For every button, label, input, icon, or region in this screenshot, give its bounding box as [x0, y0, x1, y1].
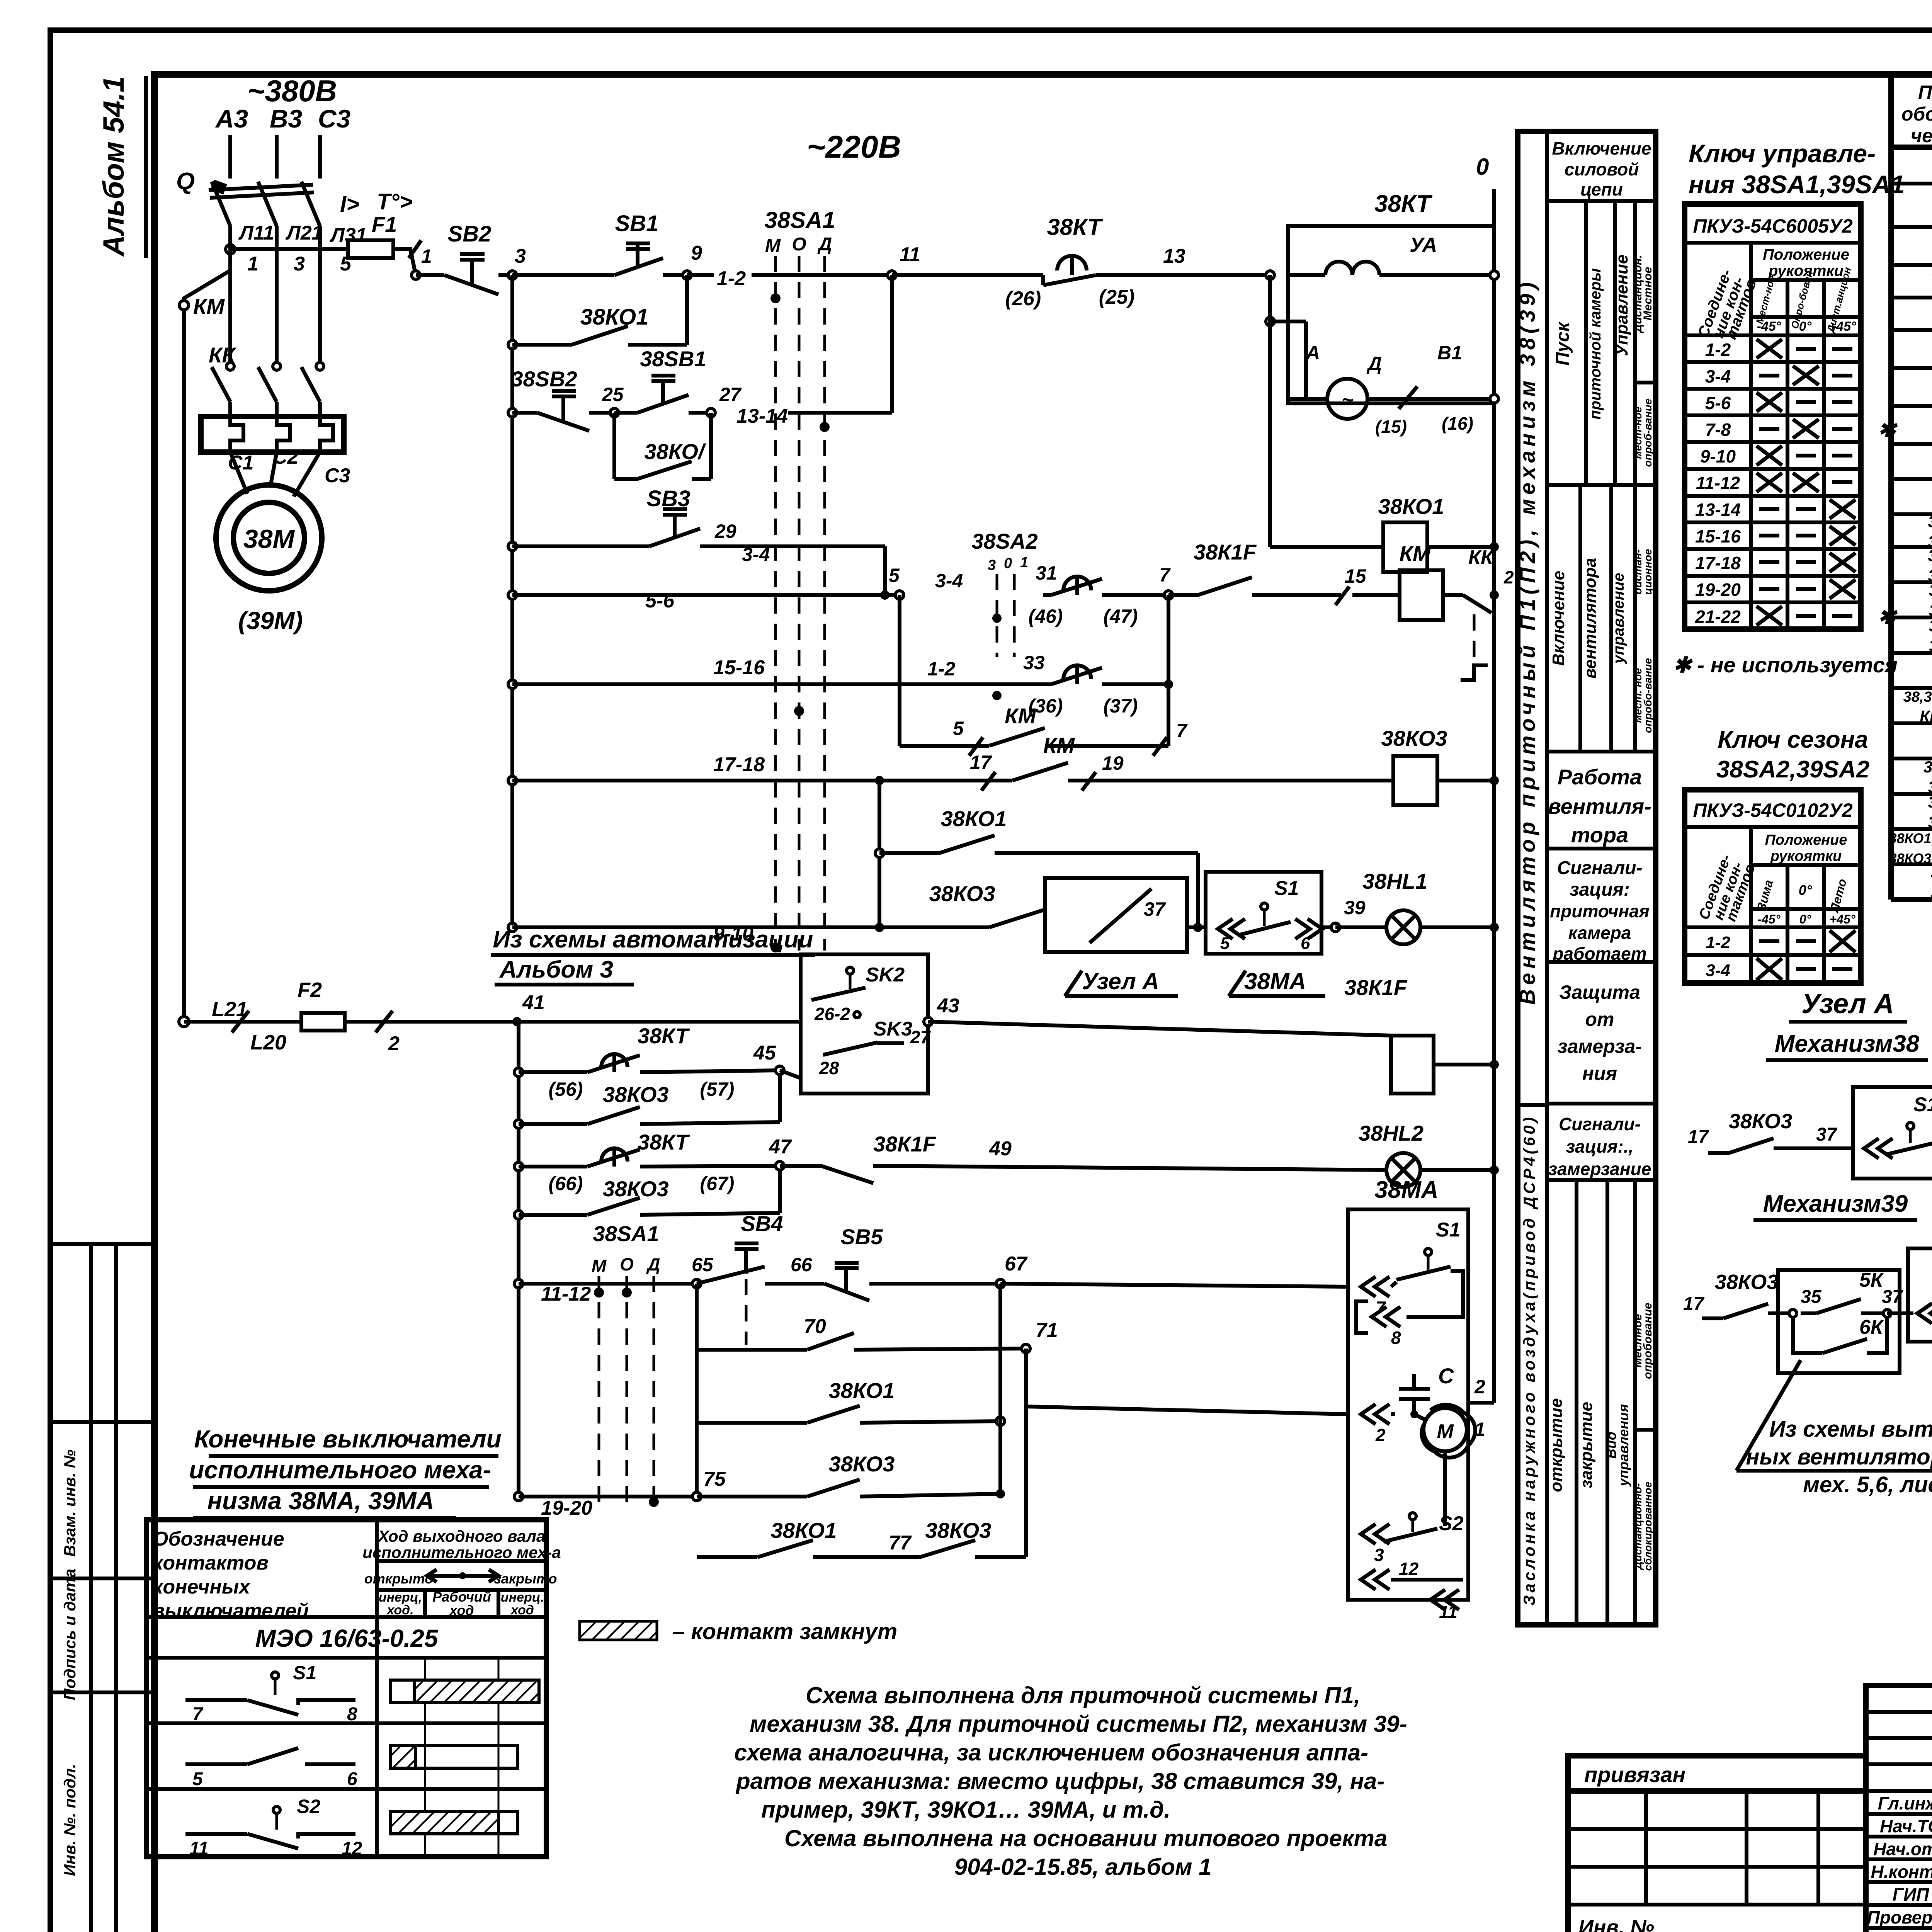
svg-text:Поз.: Поз. [1918, 82, 1932, 103]
svg-text:43: 43 [937, 995, 959, 1017]
svg-text:Положение: Положение [1763, 246, 1849, 263]
svg-text:силовой: силовой [1565, 159, 1639, 179]
MEO limit switch table [146, 1520, 546, 1857]
svg-text:Альбом 54.1: Альбом 54.1 [97, 76, 130, 257]
svg-text:Из схемы автоматизации: Из схемы автоматизации [493, 926, 813, 953]
svg-text:управления: управления [1616, 1404, 1631, 1487]
svg-text:F1: F1 [372, 212, 397, 236]
band section power-on [1547, 199, 1656, 203]
svg-text:ГИП: ГИП [1893, 1884, 1929, 1905]
svg-text:I>: I> [340, 192, 359, 217]
svg-text:1: 1 [1020, 554, 1028, 571]
coil YA arcs [1288, 273, 1325, 277]
svg-text:28: 28 [819, 1058, 839, 1078]
svg-text:S2: S2 [297, 1796, 320, 1817]
svg-text:25: 25 [602, 384, 624, 405]
svg-text:+45°: +45° [1829, 912, 1855, 926]
svg-text:38SB2: 38SB2 [511, 367, 577, 391]
svg-text:КМ: КМ [193, 294, 225, 318]
svg-text:38 SA1: 38 SA1 [1923, 758, 1932, 776]
svg-text:3-4: 3-4 [935, 570, 963, 592]
stub from node 832 into box [1270, 320, 1306, 323]
svg-text:6К: 6К [1859, 1316, 1884, 1338]
svg-text:5-6: 5-6 [645, 590, 675, 612]
svg-text:17: 17 [970, 752, 992, 773]
svg-text:Пуск: Пуск [1553, 321, 1573, 366]
L21 feeder rung [179, 1017, 189, 1027]
svg-text:6: 6 [347, 1769, 357, 1789]
rung 15-16 / 1-2 / 33 [508, 680, 517, 689]
svg-text:ратов механизма: вместо цифры,: ратов механизма: вместо цифры, 38 ставит… [735, 1768, 1384, 1794]
svg-text:0°: 0° [1799, 319, 1812, 334]
svg-text:41: 41 [522, 992, 545, 1014]
svg-text:привязан: привязан [1584, 1762, 1685, 1787]
svg-text:38КО3: 38КО3 [1729, 1110, 1793, 1133]
svg-text:Ключ сезона: Ключ сезона [1718, 726, 1868, 753]
svg-text:38HL2: 38HL2 [1929, 617, 1932, 635]
svg-text:1-2: 1-2 [1706, 933, 1730, 952]
pin 8 arrow [1386, 1307, 1400, 1327]
parallel contact 38KO1 under 38SB1 [612, 413, 616, 479]
svg-text:3: 3 [294, 253, 305, 275]
svg-text:5: 5 [889, 565, 900, 586]
svg-text:исполнительного мех-а: исполнительного мех-а [362, 1543, 561, 1561]
svg-text:38HL2: 38HL2 [1359, 1121, 1423, 1145]
band bottom columns [1547, 1178, 1656, 1182]
svg-text:ПКУЗ-54С6005У2: ПКУЗ-54С6005У2 [1693, 215, 1852, 237]
svg-text:67: 67 [1005, 1253, 1028, 1275]
svg-text:Инв. №. подл.: Инв. №. подл. [61, 1764, 79, 1876]
svg-text:17-18: 17-18 [713, 753, 765, 776]
svg-text:~: ~ [1342, 389, 1353, 411]
svg-text:L20: L20 [250, 1031, 286, 1054]
svg-text:Обозначение: Обозначение [153, 1528, 284, 1550]
svg-text:37: 37 [1144, 898, 1166, 920]
svg-text:(26): (26) [1005, 287, 1041, 310]
motor M in actuator [1423, 1408, 1467, 1451]
svg-text:открытие: открытие [1547, 1398, 1566, 1492]
node 71 [1022, 1344, 1030, 1353]
wire 43 to K1F coil [928, 1022, 1391, 1036]
node 1 to SB2 wire [412, 271, 420, 279]
svg-text:(16): (16) [1442, 413, 1473, 434]
node 9 [683, 271, 691, 279]
svg-text:Гл.инж.: Гл.инж. [1878, 1793, 1932, 1813]
svg-text:38SA2: 38SA2 [971, 529, 1037, 553]
rung 3-4: pushbutton SB3 [508, 542, 517, 551]
svg-text:9: 9 [691, 242, 702, 264]
svg-text:Л11: Л11 [238, 222, 274, 244]
svg-text:11-12: 11-12 [541, 1283, 591, 1305]
wire phase A down [228, 226, 232, 363]
svg-text:(57): (57) [700, 1078, 735, 1100]
svg-text:70: 70 [804, 1315, 826, 1338]
svg-text:Сигнали-: Сигнали- [1557, 858, 1642, 878]
svg-text:1-2: 1-2 [717, 267, 746, 290]
svg-text:7: 7 [1176, 720, 1188, 742]
svg-text:Подпись и дата: Подпись и дата [61, 1569, 79, 1700]
svg-text:приточной камеры: приточной камеры [1587, 268, 1604, 420]
rung 5-6 [508, 591, 517, 599]
svg-text:11: 11 [1439, 1602, 1458, 1622]
feeder vertical from node 41 [517, 1022, 520, 1497]
rung 19-20 / 75 38KO3 [514, 1492, 523, 1501]
node 13 column [1266, 271, 1274, 279]
svg-text:Инв. №: Инв. № [1578, 1916, 1654, 1932]
svg-text:механизм 38. Для приточной сис: механизм 38. Для приточной системы П2, м… [750, 1711, 1407, 1737]
pin 2 arrow + capacitor C [1361, 1404, 1376, 1424]
svg-text:ния: ния [1582, 1063, 1617, 1084]
wire fuse to node 1 [393, 249, 433, 275]
node 41 [512, 1017, 522, 1026]
svg-text:(66): (66) [549, 1173, 583, 1194]
hatch legend [580, 1621, 657, 1640]
svg-text:Проверил: Проверил [1867, 1907, 1932, 1927]
svg-text:38HL1: 38HL1 [1362, 869, 1427, 893]
svg-text:38КО3: 38КО3 [1715, 1270, 1779, 1294]
svg-text:38КТ: 38КТ [638, 1024, 690, 1048]
KM holding contact rung [898, 595, 901, 746]
band section start chamber [1584, 201, 1588, 485]
svg-text:тора: тора [1571, 823, 1629, 847]
holding contact 38KO1 [508, 340, 517, 349]
svg-text:39: 39 [1344, 897, 1366, 918]
svg-text:Д: Д [817, 234, 832, 255]
svg-text:(46): (46) [1029, 605, 1063, 627]
svg-text:Механизм39: Механизм39 [1763, 1190, 1908, 1217]
svg-text:Схема выполнена для приточной: Схема выполнена для приточной системы П1… [806, 1682, 1361, 1708]
svg-text:О: О [620, 1254, 634, 1274]
svg-text:опроб-вание: опроб-вание [1642, 399, 1654, 467]
pin 12 arrow [1361, 1570, 1376, 1590]
svg-text:КМ: КМ [1043, 733, 1075, 757]
SK2 SK3 box [801, 954, 928, 1094]
svg-text:низма 38МА, 39МА: низма 38МА, 39МА [207, 1487, 434, 1515]
svg-text:17: 17 [1683, 1294, 1705, 1314]
svg-text:11: 11 [900, 243, 920, 266]
svg-text:1: 1 [421, 245, 432, 267]
svg-text:схема аналогична, за исключени: схема аналогична, за исключением обознач… [734, 1740, 1368, 1765]
svg-text:УА: УА [1410, 233, 1437, 257]
node 3 [508, 271, 517, 279]
svg-text:3-4: 3-4 [742, 544, 770, 565]
svg-text:Д: Д [646, 1254, 660, 1274]
svg-text:38КО3: 38КО3 [829, 1452, 895, 1476]
node 45 [778, 1070, 782, 1122]
svg-text:Ключ управле-: Ключ управле- [1689, 139, 1876, 168]
svg-text:О: О [792, 234, 806, 255]
svg-text:38SB2: 38SB2 [1928, 546, 1932, 565]
svg-text:(15): (15) [1375, 417, 1407, 437]
svg-text:29: 29 [714, 520, 736, 542]
svg-text:(25): (25) [1099, 286, 1134, 308]
svg-text:цепи: цепи [1580, 179, 1623, 199]
svg-text:КК: КК [209, 343, 236, 367]
svg-text:С3: С3 [318, 104, 350, 133]
svg-text:Н.контр.: Н.контр. [1871, 1862, 1932, 1882]
svg-text:33: 33 [1023, 652, 1045, 673]
rung 13-14: pushbutton 38SB2 [508, 408, 517, 417]
svg-text:✱: ✱ [1878, 417, 1898, 441]
svg-text:(56): (56) [549, 1078, 583, 1100]
svg-text:5: 5 [1220, 934, 1230, 953]
svg-text:19: 19 [1102, 752, 1124, 774]
control key table PKU3-54C6005U2 [1685, 204, 1861, 629]
svg-text:47: 47 [769, 1136, 792, 1158]
svg-text:(47): (47) [1104, 605, 1138, 627]
svg-text:21-22: 21-22 [1695, 607, 1741, 627]
svg-text:вентилятора: вентилятора [1581, 558, 1600, 679]
svg-text:Нач.отд: Нач.отд [1873, 1839, 1932, 1859]
svg-text:пример, 39КТ, 39КО1… 39МА, и: пример, 39КТ, 39КО1… 39МА, и т.д. [761, 1797, 1170, 1823]
svg-text:0: 0 [1476, 154, 1489, 180]
svg-text:замерза-: замерза- [1558, 1036, 1642, 1057]
title block: signature table [1866, 1685, 1932, 1932]
svg-text:38К1F: 38К1F [1930, 863, 1932, 881]
svg-text:ных вентиляторов: ных вентиляторов [1746, 1444, 1932, 1469]
node 11 [888, 271, 896, 279]
svg-text:1-2: 1-2 [927, 658, 955, 680]
svg-text:выключателей: выключателей [153, 1600, 309, 1622]
svg-text:SB1: SB1 [615, 211, 659, 236]
svg-text:0: 0 [1004, 555, 1012, 571]
svg-text:закрыто: закрыто [494, 1571, 557, 1587]
svg-text:В1: В1 [1437, 342, 1462, 364]
parallel pair 38KT/(66)38KO3(67) [514, 1162, 523, 1171]
rung 17-18 KM contact [508, 776, 517, 785]
svg-text:71: 71 [1036, 1319, 1058, 1342]
rung 38KO1 signal [878, 781, 881, 927]
svg-text:Д: Д [1366, 353, 1382, 374]
svg-text:рукоятки: рукоятки [1770, 848, 1842, 864]
svg-text:Конечные выключатели: Конечные выключатели [194, 1425, 501, 1453]
svg-text:Q: Q [176, 168, 195, 195]
svg-text:19-20: 19-20 [541, 1497, 592, 1519]
svg-text:5: 5 [192, 1769, 203, 1789]
svg-text:S1: S1 [1436, 1219, 1461, 1241]
svg-text:15-16: 15-16 [713, 656, 765, 679]
svg-text:Защита: Защита [1559, 981, 1640, 1003]
band section fan works [1547, 750, 1656, 753]
svg-text:(37): (37) [1104, 695, 1138, 717]
svg-text:ход.: ход. [386, 1603, 413, 1617]
wire through key columns [752, 273, 892, 277]
svg-text:49: 49 [989, 1138, 1012, 1160]
svg-text:Включение: Включение [1552, 138, 1651, 158]
wire phase B down [275, 226, 279, 363]
svg-text:Т°>: Т°> [377, 189, 413, 214]
wires to motor [230, 452, 247, 494]
svg-text:38КО3: 38КО3 [925, 1518, 992, 1543]
svg-text:-45°: -45° [1757, 319, 1781, 334]
svg-text:38КТ: 38КТ [638, 1130, 690, 1154]
svg-text:2: 2 [1474, 1376, 1485, 1398]
svg-text:0°: 0° [1799, 912, 1811, 926]
svg-text:Работа: Работа [1558, 765, 1642, 789]
svg-text:3: 3 [515, 245, 526, 267]
parallel pair 38KT/(56)38KO3(57) [514, 1068, 523, 1077]
svg-text:5К: 5К [1859, 1269, 1884, 1291]
svg-text:37: 37 [1816, 1124, 1838, 1145]
svg-text:вентиля-: вентиля- [1548, 794, 1651, 818]
pin 11 arrow bottom [1430, 1590, 1445, 1610]
svg-text:27: 27 [719, 384, 742, 405]
svg-text:38КТ: 38КТ [1047, 214, 1103, 240]
time contact 38KT (46)(47) [1063, 577, 1091, 590]
svg-text:38SB1: 38SB1 [1928, 512, 1932, 531]
wire down to 38KO1 coil [1268, 275, 1272, 547]
band section signalling frost [1547, 1102, 1656, 1105]
tap wire to control fuse [230, 247, 347, 251]
svg-text:7: 7 [1159, 564, 1171, 586]
svg-text:Управление: Управление [1612, 255, 1631, 356]
svg-text:А3: А3 [215, 104, 248, 133]
left margin stamp column dividers [89, 1244, 93, 1932]
svg-text:39К1F: 39К1F [1930, 883, 1932, 901]
svg-text:ченче: ченче [1911, 125, 1932, 146]
svg-text:38К1F: 38К1F [1194, 540, 1257, 564]
svg-text:38,39(Q,F1: 38,39(Q,F1 [1903, 689, 1932, 705]
svg-text:3: 3 [1374, 1545, 1384, 1565]
svg-text:Заслонка наружного воздуха(при: Заслонка наружного воздуха(привод ДСР4(6… [1520, 1114, 1538, 1605]
svg-text:Сигнали-: Сигнали- [1559, 1114, 1641, 1134]
svg-text:С: С [1438, 1364, 1454, 1388]
svg-text:ционное: ционное [1642, 549, 1654, 595]
svg-text:45: 45 [753, 1042, 776, 1064]
svg-text:(67): (67) [700, 1173, 735, 1194]
svg-text:38КО1: 38КО1 [941, 806, 1007, 831]
svg-text:обозна-: обозна- [1901, 103, 1932, 125]
svg-text:+45°: +45° [1828, 319, 1856, 334]
svg-text:В3: В3 [270, 104, 302, 133]
band section fan on [1547, 483, 1656, 487]
key table rows [1685, 333, 1861, 337]
contact 70 rung [695, 1284, 699, 1497]
svg-text:S1: S1 [1913, 1094, 1932, 1116]
svg-text:38КО1: 38КО1 [1378, 494, 1444, 519]
svg-text:8: 8 [347, 1704, 357, 1725]
svg-text:66: 66 [791, 1254, 813, 1276]
svg-text:38М: 38М [243, 524, 295, 554]
rung 9-10 signal lamp [508, 923, 517, 932]
svg-text:38HL1: 38HL1 [1929, 581, 1932, 599]
svg-text:3-4: 3-4 [1706, 961, 1730, 980]
title block: attachment box [1568, 1756, 1866, 1791]
svg-text:19-20: 19-20 [1695, 580, 1741, 600]
svg-text:38КО/: 38КО/ [644, 439, 706, 464]
album underline [144, 76, 148, 258]
svg-text:S1: S1 [1274, 877, 1299, 900]
svg-text:31: 31 [1036, 562, 1057, 584]
wire phase C down [318, 226, 322, 363]
svg-text:закрытие: закрытие [1577, 1402, 1596, 1488]
svg-text:6: 6 [1301, 934, 1310, 953]
svg-text:7-8: 7-8 [1705, 420, 1731, 440]
svg-text:SB2: SB2 [448, 221, 492, 247]
svg-text:77: 77 [889, 1532, 912, 1554]
svg-text:75: 75 [703, 1468, 726, 1490]
node A box [1045, 878, 1187, 952]
svg-text:15: 15 [1345, 565, 1367, 587]
svg-text:17: 17 [1688, 1127, 1709, 1147]
svg-text:С3: С3 [325, 464, 350, 487]
svg-text:М: М [1437, 1420, 1454, 1443]
svg-text:12: 12 [1399, 1559, 1419, 1579]
svg-text:исполнительного меха-: исполнительного меха- [189, 1456, 491, 1484]
svg-text:11: 11 [189, 1838, 209, 1859]
svg-text:Разраб.: Разраб. [1877, 1930, 1932, 1932]
svg-text:Включение: Включение [1549, 571, 1568, 666]
svg-text:контактов: контактов [153, 1552, 269, 1574]
band section signalling chamber [1547, 847, 1656, 850]
svg-text:38SB1: 38SB1 [640, 347, 706, 371]
svg-text:38КО1: 38КО1 [771, 1518, 837, 1543]
svg-text:М: М [592, 1256, 607, 1276]
svg-text:SB5: SB5 [841, 1225, 883, 1249]
svg-text:13: 13 [1163, 245, 1185, 267]
feeder wire down to L21 rail [184, 270, 230, 1022]
svg-text:ния 38SA1,39SA1: ния 38SA1,39SA1 [1689, 170, 1905, 199]
svg-text:конечных: конечных [153, 1576, 251, 1598]
band section frost protection [1547, 960, 1656, 964]
phase C feeder [318, 135, 322, 179]
svg-text:Местное: Местное [1641, 267, 1654, 321]
svg-text:0°: 0° [1799, 882, 1812, 898]
svg-text:3: 3 [988, 557, 996, 573]
svg-text:1: 1 [1475, 1418, 1485, 1440]
svg-text:Ход выходного вала: Ход выходного вала [378, 1527, 546, 1545]
phase A feeder [228, 135, 232, 179]
svg-text:8: 8 [1391, 1328, 1401, 1348]
svg-text:38SA2,39SA2: 38SA2,39SA2 [1716, 756, 1869, 783]
svg-text:SB4: SB4 [741, 1211, 783, 1236]
svg-text:26-2: 26-2 [814, 1004, 850, 1024]
svg-text:приточная: приточная [1550, 901, 1650, 921]
svg-text:Узел А: Узел А [1801, 988, 1894, 1019]
svg-text:13-14: 13-14 [736, 405, 788, 427]
svg-text:-45°: -45° [1757, 912, 1780, 926]
left rail [510, 275, 514, 927]
svg-text:ПКУЗ-54С0102У2: ПКУЗ-54С0102У2 [1693, 799, 1852, 821]
svg-text:38КТ: 38КТ [1374, 190, 1433, 217]
svg-text:38SA1: 38SA1 [764, 207, 835, 233]
svg-text:Л21: Л21 [285, 222, 323, 244]
node 47 and contact 38K1F 49 rung [778, 1166, 782, 1213]
svg-text:9-10: 9-10 [1700, 446, 1736, 466]
svg-text:замерзание: замерзание [1548, 1159, 1651, 1179]
svg-text:Вентилятор приточный П1(П2), м: Вентилятор приточный П1(П2), механизм 38… [1515, 278, 1539, 1005]
svg-text:13-14: 13-14 [1695, 500, 1741, 520]
function band outer [1518, 131, 1656, 1625]
svg-text:Механизм38: Механизм38 [1775, 1031, 1920, 1057]
svg-text:от: от [1585, 1009, 1614, 1030]
svg-text:S1: S1 [293, 1662, 316, 1684]
svg-text:мех. 5,6, лист 14: мех. 5,6, лист 14 [1803, 1472, 1932, 1497]
motor 38M [216, 485, 322, 591]
svg-text:ход: ход [449, 1602, 474, 1618]
svg-text:~220В: ~220В [807, 129, 901, 165]
svg-text:37: 37 [1882, 1287, 1903, 1307]
svg-text:Положение: Положение [1765, 832, 1847, 848]
svg-text:38КО3: 38КО3 [1381, 726, 1447, 750]
svg-text:2: 2 [1503, 567, 1514, 587]
svg-text:38SA2: 38SA2 [1928, 793, 1932, 811]
svg-text:М: М [765, 236, 781, 256]
svg-text:Нач.ТО: Нач.ТО [1880, 1816, 1932, 1836]
svg-text:– контакт замкнут: – контакт замкнут [672, 1619, 897, 1644]
svg-text:(39М): (39М) [238, 607, 303, 634]
svg-text:5: 5 [953, 718, 964, 739]
